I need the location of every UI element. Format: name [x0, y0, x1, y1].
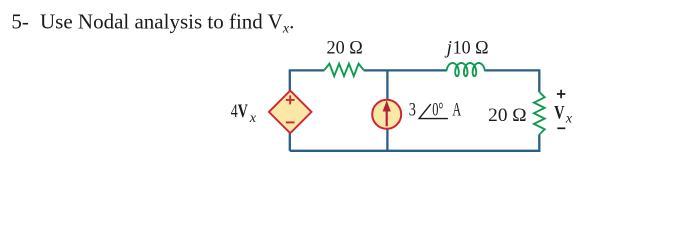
svg-text:3: 3 [409, 99, 416, 120]
wire top-right + right upper segment [485, 70, 540, 92]
wire right lower + bottom segment [290, 135, 540, 151]
minus sign inside diamond [286, 121, 295, 123]
current source arrow [386, 110, 388, 126]
svg-text:5-: 5- [11, 10, 29, 34]
angle symbol [419, 104, 448, 119]
wire left upper + top-left segment [290, 70, 325, 90]
svg-text:20 Ω: 20 Ω [327, 38, 363, 59]
svg-text:4V: 4V [231, 101, 248, 122]
plus sign of Vx [557, 90, 565, 98]
dependent voltage source 4Vx diamond [269, 91, 312, 134]
plus sign inside diamond [286, 95, 295, 104]
svg-text:20 Ω: 20 Ω [488, 105, 526, 126]
svg-text:j: j [444, 38, 452, 59]
svg-text:A: A [452, 99, 461, 120]
wire left lower segment [289, 133, 291, 151]
svg-text:V: V [554, 102, 565, 123]
svg-text:Use Nodal analysis to find Vx.: Use Nodal analysis to find Vx. [40, 10, 294, 36]
current source circle [372, 100, 401, 129]
wire middle branch [386, 70, 388, 150]
inductor j10ohm coil [447, 63, 485, 76]
svg-text:10 Ω: 10 Ω [453, 38, 489, 59]
svg-text:x: x [565, 111, 572, 126]
wire top middle segment [364, 69, 447, 71]
resistor 20ohm horizontal [325, 64, 364, 76]
svg-text:x: x [249, 110, 256, 125]
svg-text:0°: 0° [432, 99, 443, 120]
minus sign of Vx [557, 127, 565, 129]
resistor 20ohm vertical [534, 92, 545, 135]
